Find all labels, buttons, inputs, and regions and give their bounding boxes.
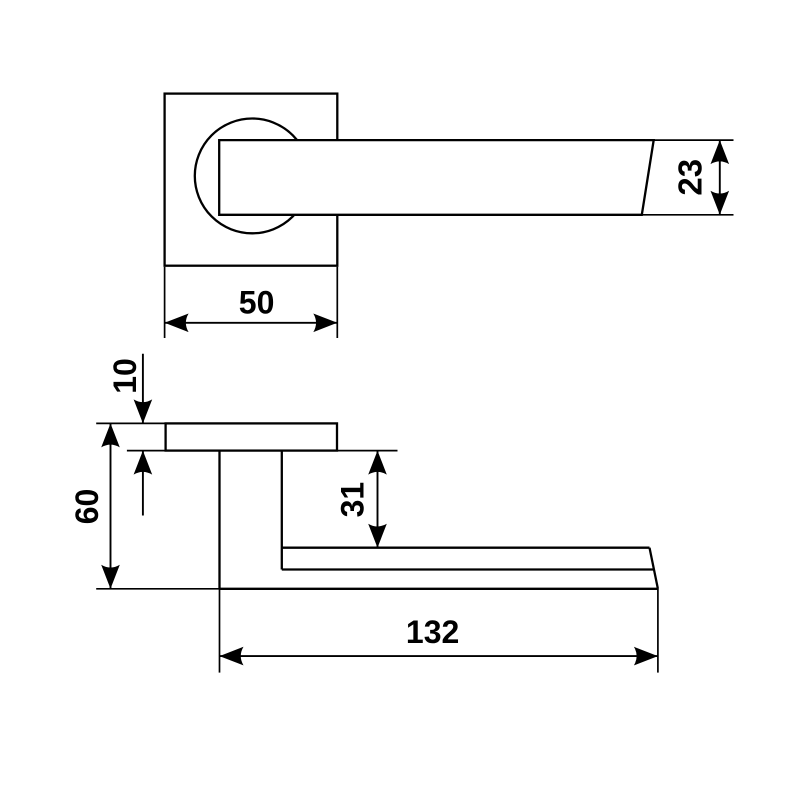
arrowhead 132 left xyxy=(220,647,244,666)
arrowhead 10 up xyxy=(134,451,153,475)
svg-text:132: 132 xyxy=(406,614,459,650)
arrowhead 23 up xyxy=(711,140,730,164)
arrowhead 10 down xyxy=(134,399,153,423)
arrowhead 23 down xyxy=(711,191,730,215)
arrowhead 31 up xyxy=(368,451,387,475)
lever arm bottom edge (side view) xyxy=(220,588,658,590)
lever arm middle edge (side view) xyxy=(282,568,654,570)
arrowhead 132 right xyxy=(634,647,658,666)
arrowhead 50 right xyxy=(313,314,337,333)
svg-text:60: 60 xyxy=(69,489,105,525)
arrowhead 60 down xyxy=(101,565,120,589)
extension line left of 50 xyxy=(164,267,166,338)
extension line right of 132 xyxy=(657,589,659,673)
dimension line 31 xyxy=(377,451,379,548)
extension line left of rosette bottom xyxy=(127,450,166,452)
rosette profile (side view) xyxy=(166,423,337,450)
arrowhead 31 down xyxy=(368,524,387,548)
extension line left of lever bottom (60 reference) xyxy=(96,588,219,590)
dimension line 60 xyxy=(110,423,112,588)
dimension line 10 upper leader xyxy=(142,354,144,424)
handle stem right edge (side view) xyxy=(281,451,283,570)
dimension line 132 xyxy=(220,655,658,657)
svg-text:10: 10 xyxy=(107,358,143,394)
svg-text:50: 50 xyxy=(239,284,275,320)
lever arm top edge (side view) xyxy=(282,547,650,549)
extension line left of rosette top xyxy=(96,422,165,424)
arrowhead 50 left xyxy=(165,314,189,333)
extension line right of rosette bottom xyxy=(337,450,398,452)
extension line right of 50 xyxy=(336,267,338,338)
rosette circle (top view) xyxy=(195,118,310,233)
dimension line 10 lower leader xyxy=(142,451,144,516)
extension line top of 23 xyxy=(654,139,734,141)
svg-text:23: 23 xyxy=(672,159,709,196)
dimension line 23 xyxy=(719,140,721,215)
extension line left of 132 xyxy=(219,589,221,673)
arrowhead 60 up xyxy=(101,423,120,447)
lever arm end face (side view slant) xyxy=(650,548,658,589)
square rosette plate (top view) xyxy=(165,94,338,266)
dimension line 50 xyxy=(165,322,338,324)
lever handle bar (top view) xyxy=(219,140,654,215)
handle stem left edge (side view) xyxy=(218,451,220,589)
svg-text:31: 31 xyxy=(335,482,371,518)
extension line bottom of 23 xyxy=(642,214,734,216)
